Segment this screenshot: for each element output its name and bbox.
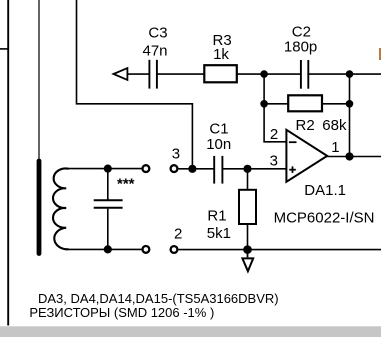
wire (tap from pin3 node up and left to top edge) [77, 0, 193, 169]
node (junction R2 / feedback right) [346, 100, 354, 108]
svg-text:РЕЗИСТОРЫ (SMD 1206 -1% ): РЕЗИСТОРЫ (SMD 1206 -1% ) [29, 305, 214, 320]
wire (pin3 to C1) [178, 168, 214, 170]
node (junction coil bottom / trimmer cap) [104, 245, 112, 253]
wire (stub crossing sheet border, upper left) [0, 48, 9, 50]
svg-text:R2: R2 [296, 117, 315, 134]
inductor L (antenna coil) [53, 169, 69, 250]
capacitor C2 plates [301, 60, 308, 89]
node (junction feedback left / R2) [260, 100, 268, 108]
net label fragment (red, cut at right edge) [379, 48, 381, 60]
svg-text:180p: 180p [284, 39, 317, 56]
wire (R1 bottom lead) [247, 224, 249, 250]
wire (trimmer cap top stub) [107, 169, 109, 200]
wire (trimmer cap bottom stub) [107, 209, 109, 250]
svg-text:5k1: 5k1 [207, 225, 231, 242]
wire (feedback left vertical to inverting input) [264, 74, 286, 142]
capacitor C1 plates [214, 156, 222, 184]
svg-text:68k: 68k [322, 117, 347, 134]
svg-text:DA1.1: DA1.1 [304, 182, 346, 199]
node (junction C1 / R1) [243, 165, 251, 173]
wire (coil top to socket) [66, 168, 142, 170]
connector pin 2 contact [171, 246, 178, 253]
node (junction coil top / trimmer cap) [104, 165, 112, 173]
svg-text:47n: 47n [143, 42, 168, 59]
resistor R1 body [239, 190, 256, 224]
op-amp DA1.1 triangle [286, 130, 327, 182]
node (junction pin3 / tap wire) [188, 165, 196, 173]
ground [242, 253, 253, 272]
connector pin 3 contact [171, 165, 178, 172]
wire (node to R2 left) [264, 103, 288, 105]
svg-text:2: 2 [270, 126, 278, 143]
connector socket contact lower [143, 246, 150, 253]
wire (antenna rod lead from top edge) [38, 0, 40, 160]
svg-text:C3: C3 [148, 25, 167, 42]
resistor R3 body [204, 65, 237, 82]
node (junction R1 / ground rail) [243, 245, 252, 254]
svg-text:10n: 10n [206, 136, 231, 153]
bottom grey bar (window edge) [0, 326, 381, 337]
svg-text:3: 3 [270, 153, 278, 170]
connector socket contact upper [143, 165, 150, 172]
wire (coil bottom to socket) [65, 248, 142, 250]
svg-text:C1: C1 [209, 120, 228, 137]
ferrite rod core [37, 161, 42, 254]
svg-text:MCP6022-I/SN: MCP6022-I/SN [274, 210, 375, 227]
input arrow (off-sheet signal, to C3) [114, 68, 128, 80]
resistor R2 body [288, 95, 322, 111]
wire (R3 to C2) [237, 73, 301, 75]
wire (arrow to C3) [127, 73, 149, 75]
node (junction R3 / feedback left) [260, 70, 268, 78]
svg-text:R1: R1 [207, 208, 226, 225]
capacitor C3 plates [149, 60, 157, 89]
wire (R2 right to feedback right vertical) [322, 103, 350, 105]
wire (C2 to right edge) [308, 73, 381, 75]
wire (ground rail from pin2 to right edge) [178, 249, 381, 251]
op-amp minus sign [289, 141, 297, 143]
svg-text:***: *** [117, 176, 135, 193]
sheet border left line [7, 0, 9, 326]
wire (op-amp output to right edge) [327, 156, 381, 158]
svg-text:2: 2 [174, 226, 182, 243]
wire (C1 to op-amp non-inverting input) [222, 168, 286, 170]
node (junction output / feedback right) [345, 152, 353, 160]
op-amp plus sign [289, 166, 296, 173]
wire (feedback right vertical) [349, 74, 351, 156]
svg-text:1: 1 [331, 139, 339, 156]
wire (R1 top lead) [247, 169, 249, 190]
svg-text:3: 3 [172, 145, 180, 162]
node (junction C2 / feedback right) [346, 70, 354, 78]
capacitor C* (selected, ***) plates [94, 200, 123, 208]
wire (C3 to R3) [157, 73, 204, 75]
svg-text:1k: 1k [213, 46, 229, 63]
